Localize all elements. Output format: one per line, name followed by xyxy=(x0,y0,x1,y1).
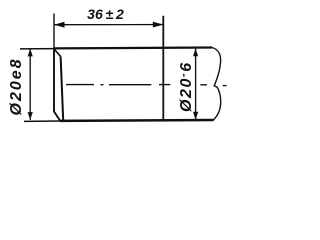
wire chamfer edge line xyxy=(61,56,64,120)
svg-text:Ø20e8: Ø20e8 xyxy=(8,57,25,115)
svg-text:Ø20-6: Ø20-6 xyxy=(178,61,196,112)
wire body top edge xyxy=(54,46,212,49)
wire chamfer slant top xyxy=(55,50,61,57)
wire body bottom edge xyxy=(60,119,214,122)
wire center line dash 2 xyxy=(109,84,151,86)
wire center line dot xyxy=(101,84,104,86)
wire dimension line Ø20-6 xyxy=(195,49,197,121)
wire bottom extension line for diameter dim xyxy=(24,120,60,122)
wire left extension line 36 dim xyxy=(53,14,55,49)
arrowhead Ø20-6 down xyxy=(193,112,198,120)
wire shoulder line / right extension of 36 dim xyxy=(162,16,164,120)
wire dimension line Ø20e8 xyxy=(29,49,31,120)
svg-text:36 ± 2: 36 ± 2 xyxy=(87,6,124,22)
wire top extension line for diameter dim xyxy=(20,48,54,50)
arrowhead 36 dim left xyxy=(54,22,65,28)
wire center line dash 1 xyxy=(66,84,94,86)
wire center line dash 5 xyxy=(223,85,227,87)
arrowhead 36 dim right xyxy=(153,22,164,28)
wire break line right end xyxy=(212,48,221,121)
wire center line dash 4 xyxy=(200,84,207,86)
wire body left end face xyxy=(54,49,60,121)
wire dimension line 36±2 xyxy=(54,24,163,26)
arrowhead Ø20e8 up xyxy=(28,49,33,57)
arrowhead Ø20e8 down xyxy=(28,112,33,120)
wire center line dash 3 xyxy=(159,84,170,86)
arrowhead Ø20-6 up xyxy=(193,48,198,56)
